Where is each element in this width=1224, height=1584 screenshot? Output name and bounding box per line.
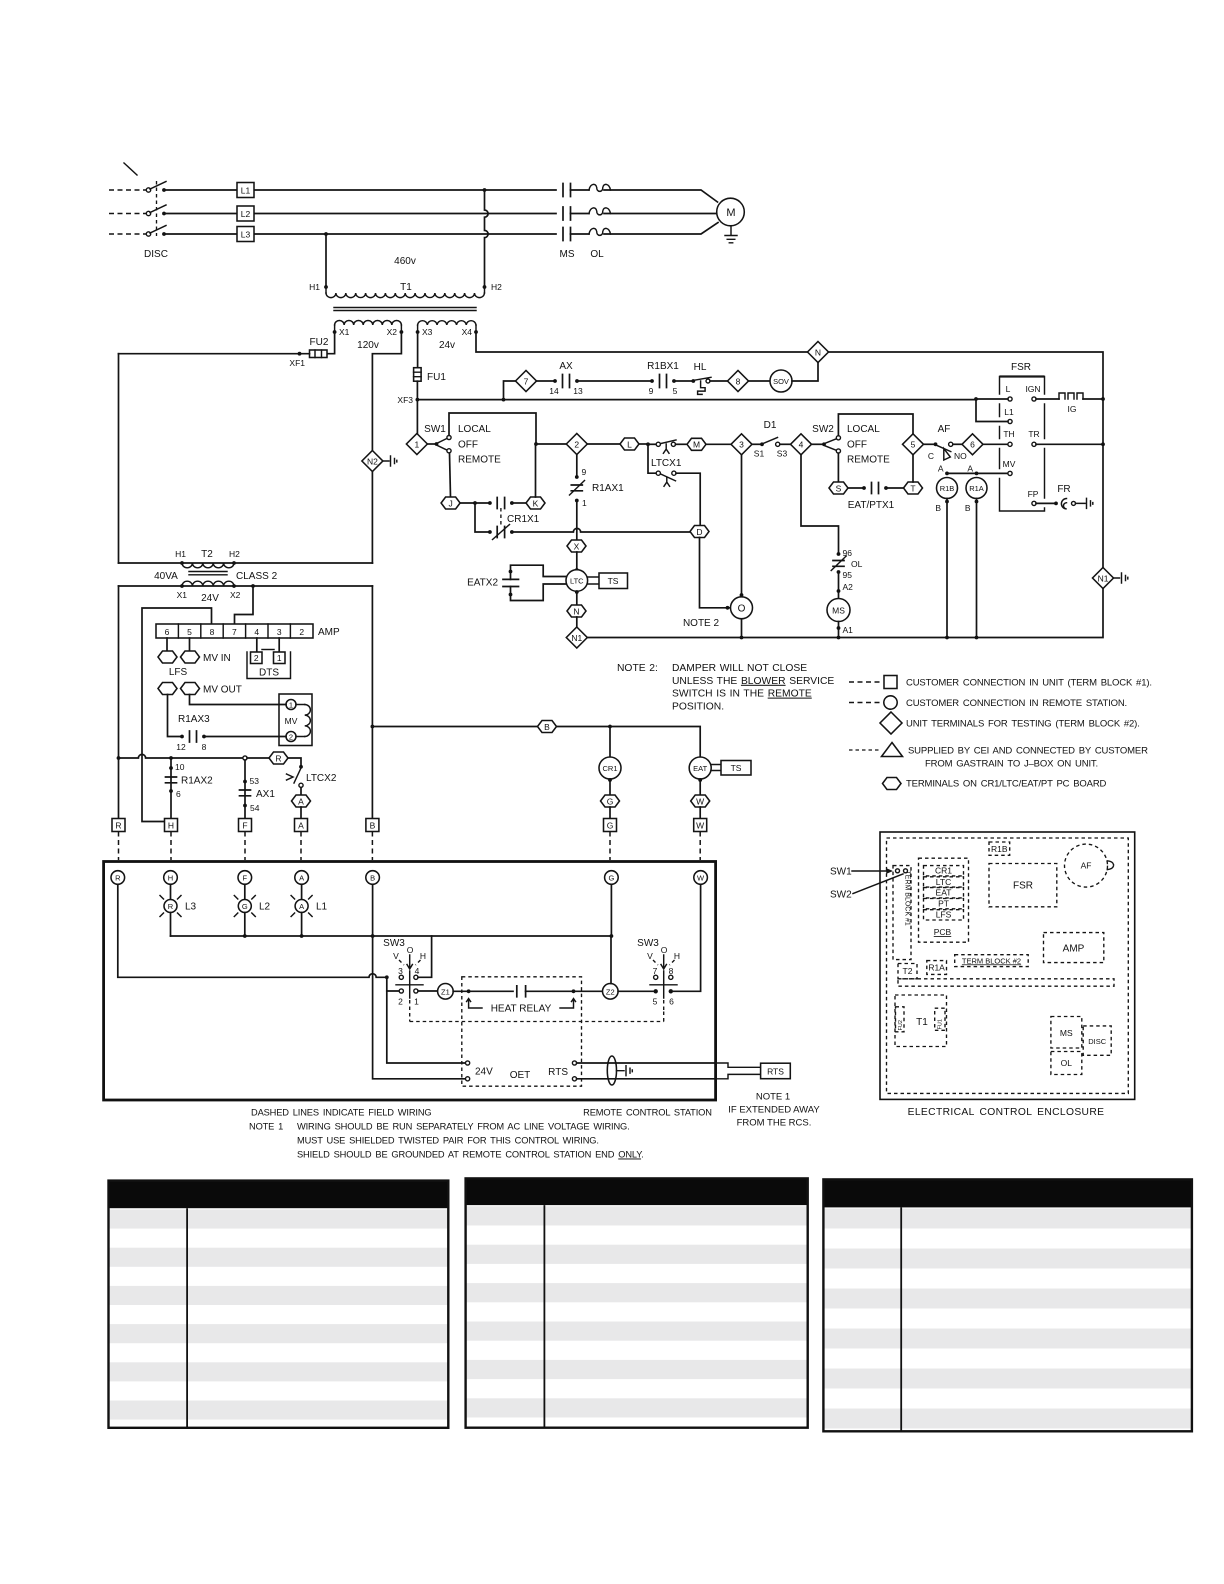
svg-text:LFS: LFS xyxy=(169,667,188,678)
svg-text:R1BX1: R1BX1 xyxy=(647,361,679,372)
svg-text:10: 10 xyxy=(175,762,185,772)
svg-text:6: 6 xyxy=(669,997,674,1007)
contact R1BX1 (NO) xyxy=(647,361,679,396)
transformer T1 xyxy=(309,256,502,351)
node L1 tap to T1 H2 xyxy=(483,188,487,192)
wire bus to LTCX2 xyxy=(288,758,301,765)
svg-text:XF3: XF3 xyxy=(397,395,413,405)
switch HL with flag xyxy=(691,362,711,394)
svg-text:H1: H1 xyxy=(309,282,320,292)
svg-text:L1: L1 xyxy=(1004,407,1014,417)
svg-text:A: A xyxy=(967,464,973,474)
svg-text:W: W xyxy=(696,796,704,806)
svg-text:SW2: SW2 xyxy=(830,890,852,901)
wire SOV to N xyxy=(792,363,818,382)
svg-text:LFS: LFS xyxy=(936,910,952,920)
svg-text:A1: A1 xyxy=(843,625,854,635)
legend pc board hexagon xyxy=(883,778,1107,790)
terminal box W xyxy=(694,819,707,832)
svg-text:RTS: RTS xyxy=(767,1066,784,1076)
svg-text:L3: L3 xyxy=(241,230,251,240)
contact EAT/PTX1 xyxy=(848,483,904,512)
svg-text:EAT: EAT xyxy=(693,764,707,773)
terminal J (pc board hexagon) xyxy=(441,497,460,509)
svg-text:SUPPLIED BY CEI AND CONNECTED: SUPPLIED BY CEI AND CONNECTED BY CUSTOME… xyxy=(908,746,1148,757)
svg-text:TS: TS xyxy=(608,576,619,586)
svg-text:LTC: LTC xyxy=(936,877,951,887)
svg-text:TERM BLOCK #2: TERM BLOCK #2 xyxy=(962,956,1021,965)
svg-text:7: 7 xyxy=(524,377,529,387)
svg-text:NOTE 1: NOTE 1 xyxy=(756,1092,790,1103)
svg-text:REMOTE: REMOTE xyxy=(847,455,890,466)
svg-text:5: 5 xyxy=(911,440,916,450)
legend customer connection in remote station xyxy=(849,696,1127,709)
svg-text:R: R xyxy=(115,874,121,883)
transformer T2 box xyxy=(898,964,917,979)
wire X2 to neutral rail xyxy=(372,332,401,563)
terminal 3 (unit test diamond) xyxy=(731,434,752,455)
relay CR1 xyxy=(609,727,611,758)
svg-text:1: 1 xyxy=(289,701,293,710)
svg-text:X1: X1 xyxy=(177,590,188,600)
svg-text:7: 7 xyxy=(232,627,237,637)
svg-text:MS: MS xyxy=(1060,1028,1073,1038)
svg-text:AMP: AMP xyxy=(318,627,340,638)
node XF3 bus at L xyxy=(974,397,978,401)
terminal 7 (unit test diamond) xyxy=(516,371,537,392)
wire 2 down to R1AX1 xyxy=(576,455,578,478)
svg-text:L2: L2 xyxy=(241,209,251,219)
svg-text:TERMINALS ON CR1/LTC/EAT/PT PC: TERMINALS ON CR1/LTC/EAT/PT PC BOARD xyxy=(906,779,1107,790)
svg-text:9: 9 xyxy=(649,386,654,396)
terminal R hexagon on bus xyxy=(269,752,288,764)
svg-text:CR1: CR1 xyxy=(935,866,952,876)
wire contact 4 up to common bus xyxy=(418,936,432,977)
wire 6 to FSR TH xyxy=(983,443,1007,445)
timer LTC xyxy=(566,570,588,592)
svg-text:OFF: OFF xyxy=(458,440,478,451)
wire contact 1 to Z1 xyxy=(418,990,438,992)
wire CR1X1 to D with hop xyxy=(512,528,690,532)
wire AMP 8 to H xyxy=(142,608,212,822)
relay EAT xyxy=(689,757,711,779)
disconnect switch DISC xyxy=(109,163,168,260)
relay R1A xyxy=(965,464,987,638)
svg-text:OL: OL xyxy=(1061,1058,1073,1068)
svg-text:AF: AF xyxy=(1081,861,1092,871)
contact AX (NO) xyxy=(549,361,583,396)
terminal box F xyxy=(239,819,252,832)
svg-text:D1: D1 xyxy=(764,420,777,431)
svg-text:B: B xyxy=(544,722,550,732)
terminal N1 right (unit test diamond) xyxy=(1093,568,1114,589)
svg-text:6: 6 xyxy=(165,627,170,637)
svg-text:40VA: 40VA xyxy=(154,571,178,582)
relay R1A box xyxy=(927,961,947,975)
svg-text:L3: L3 xyxy=(185,902,197,913)
transformer T2 xyxy=(119,549,373,604)
note 2 text block xyxy=(617,663,834,712)
node B rail tap xyxy=(371,725,375,729)
disconnect DISC box xyxy=(1083,1026,1111,1055)
svg-text:EATX2: EATX2 xyxy=(467,578,498,589)
svg-text:O: O xyxy=(661,945,668,955)
terminal box L1 xyxy=(237,183,254,198)
wiring duct bar xyxy=(898,979,1114,986)
svg-text:X1: X1 xyxy=(339,327,350,337)
svg-text:H1: H1 xyxy=(175,549,186,559)
wire T up to terminal 5 xyxy=(912,455,914,482)
contact R1AX3 xyxy=(176,714,286,752)
svg-text:T2: T2 xyxy=(201,549,213,560)
svg-text:CR1: CR1 xyxy=(602,764,617,773)
wire N1 rail bottom xyxy=(587,589,1103,638)
terminal box L3 xyxy=(237,227,254,242)
svg-text:3: 3 xyxy=(398,966,403,976)
terminal 4 (unit test diamond) xyxy=(791,434,812,455)
terminal X (pc board hexagon) xyxy=(567,540,586,552)
wire X1 to FU2 xyxy=(327,332,335,354)
svg-text:T2: T2 xyxy=(903,966,913,976)
svg-text:FROM GASTRAIN TO J–BOX ON UNIT: FROM GASTRAIN TO J–BOX ON UNIT. xyxy=(925,759,1098,770)
svg-text:5: 5 xyxy=(187,627,192,637)
svg-text:LTCX1: LTCX1 xyxy=(651,458,682,469)
shield twisted pair xyxy=(607,1056,616,1085)
fuse FU1 xyxy=(414,368,447,383)
svg-text:H: H xyxy=(674,951,680,961)
FSR module box xyxy=(1000,362,1045,511)
wire L3 tap down to H1 xyxy=(325,234,327,287)
wire 2 to L hexagon xyxy=(587,443,620,445)
terminal circle G xyxy=(605,871,619,885)
wire G rail to Z2 xyxy=(610,884,612,983)
terminal 2 (unit test diamond) xyxy=(566,434,587,455)
overload OL box xyxy=(1051,1052,1082,1075)
switch LTCX2 xyxy=(287,765,337,795)
svg-text:SHIELD SHOULD BE GROUNDED AT R: SHIELD SHOULD BE GROUNDED AT REMOTE CONT… xyxy=(297,1150,644,1160)
svg-text:CR1X1: CR1X1 xyxy=(507,514,540,525)
relay R1B xyxy=(935,464,957,638)
svg-text:NOTE 2: NOTE 2 xyxy=(683,618,720,629)
wire SW1 remote down to J xyxy=(450,453,451,497)
terminal box L2 xyxy=(237,206,254,221)
relay Z2 xyxy=(603,984,619,1000)
terminal box R xyxy=(112,819,125,832)
table 2 xyxy=(466,1178,808,1427)
svg-text:5: 5 xyxy=(673,386,678,396)
svg-text:PCB: PCB xyxy=(934,927,952,937)
svg-text:AX1: AX1 xyxy=(256,789,275,800)
switch SW1 selector xyxy=(424,424,501,466)
wire SW2 local up over to terminal 5 xyxy=(838,414,913,436)
motor M xyxy=(717,198,745,226)
wire contact 6 to W rail xyxy=(673,884,701,991)
svg-text:B: B xyxy=(965,503,971,513)
svg-text:SW1: SW1 xyxy=(424,424,446,435)
wire L1 tap down to H2 with hops over L2 L3 xyxy=(485,190,489,287)
terminal circle R xyxy=(111,871,125,885)
svg-text:3: 3 xyxy=(277,627,282,637)
terminal D (pc board hexagon) xyxy=(690,526,709,538)
svg-text:S3: S3 xyxy=(777,449,788,459)
svg-text:L: L xyxy=(1006,384,1011,394)
wire XF3 node down to terminal 1 xyxy=(416,400,418,434)
wire XF3 bus to FSR xyxy=(417,399,976,401)
svg-text:4: 4 xyxy=(799,440,804,450)
svg-text:Z2: Z2 xyxy=(606,987,615,996)
wire L1 jumper xyxy=(976,399,1008,422)
wire AMP 4 to DTS 2 xyxy=(256,638,258,652)
svg-text:C: C xyxy=(928,451,934,461)
svg-text:R1AX2: R1AX2 xyxy=(181,776,213,787)
svg-text:WIRING SHOULD BE RUN SEPARATEL: WIRING SHOULD BE RUN SEPARATELY FROM AC … xyxy=(297,1122,630,1132)
wire R to SW3 with hop over B xyxy=(118,884,387,977)
terminal A hexagon xyxy=(292,795,311,807)
sensor TS at EAT xyxy=(711,765,721,771)
node XF3 tap for terminal 7 xyxy=(502,398,506,402)
svg-text:DISC: DISC xyxy=(144,249,168,260)
svg-text:HEAT RELAY: HEAT RELAY xyxy=(491,1004,552,1015)
wire AMP 5 to hexagon xyxy=(189,638,191,651)
svg-text:CUSTOMER CONNECTION IN UNIT (T: CUSTOMER CONNECTION IN UNIT (TERM BLOCK … xyxy=(906,678,1152,689)
node XF1 xyxy=(119,353,310,355)
svg-text:REMOTE: REMOTE xyxy=(458,455,501,466)
svg-text:SWITCH IS IN THE REMOTE: SWITCH IS IN THE REMOTE xyxy=(672,689,812,700)
terminal W hexagon xyxy=(691,795,710,807)
terminal 6 (unit test diamond) xyxy=(962,434,983,455)
svg-text:24v: 24v xyxy=(439,340,455,351)
svg-text:SW3: SW3 xyxy=(637,938,659,949)
svg-text:R1AX3: R1AX3 xyxy=(178,714,210,725)
svg-text:X2: X2 xyxy=(387,327,398,337)
terminal box RTS remote xyxy=(761,1063,791,1079)
wire SW1 local up and over to node K xyxy=(449,413,536,444)
wire TR to rail xyxy=(1036,443,1103,445)
wire tap up to terminal 7 xyxy=(504,381,516,400)
wire R1BX1 to HL xyxy=(674,380,693,382)
svg-text:RTS: RTS xyxy=(548,1067,568,1078)
svg-text:R: R xyxy=(275,753,281,763)
svg-text:8: 8 xyxy=(210,627,215,637)
svg-text:MV IN: MV IN xyxy=(203,653,231,664)
wire MS to rail xyxy=(838,622,840,638)
svg-text:V: V xyxy=(647,951,653,961)
legend unit terminals for testing xyxy=(880,712,1140,734)
wire HL to terminal 8 xyxy=(710,380,728,382)
contact CR1X1 NC xyxy=(475,503,514,540)
svg-text:M: M xyxy=(693,440,700,450)
svg-text:OL: OL xyxy=(590,249,604,260)
svg-text:TERM BLOCK #1: TERM BLOCK #1 xyxy=(904,871,911,926)
svg-text:EAT: EAT xyxy=(936,888,952,898)
svg-text:N2: N2 xyxy=(367,456,378,466)
svg-text:460v: 460v xyxy=(394,256,416,267)
node K junction xyxy=(534,442,538,446)
svg-text:T1: T1 xyxy=(916,1017,928,1028)
wire R1AX1 down to X xyxy=(576,501,578,541)
svg-text:R1B: R1B xyxy=(991,844,1008,854)
contactor MS poles xyxy=(560,184,575,261)
svg-text:A: A xyxy=(299,874,304,883)
label heat relay with arrows xyxy=(467,999,576,1015)
svg-text:B: B xyxy=(935,503,941,513)
wire node K to terminal 2 xyxy=(536,443,566,445)
svg-text:MS: MS xyxy=(832,605,845,615)
svg-text:H: H xyxy=(168,820,174,830)
svg-text:MV OUT: MV OUT xyxy=(203,685,242,696)
wires OL to motor xyxy=(604,190,718,234)
svg-text:T: T xyxy=(910,483,915,493)
svg-text:G: G xyxy=(608,874,614,883)
svg-text:DISC: DISC xyxy=(1088,1037,1107,1046)
contact R1AX1 NC xyxy=(570,467,625,508)
relay Z1 xyxy=(438,984,454,1000)
svg-text:J: J xyxy=(448,498,452,508)
svg-text:SW2: SW2 xyxy=(812,424,834,435)
ignition coil IG xyxy=(1036,393,1105,414)
svg-text:TS: TS xyxy=(731,763,742,773)
terminal M (pc board hexagon) xyxy=(687,438,706,450)
svg-text:K: K xyxy=(533,498,539,508)
svg-text:1: 1 xyxy=(582,498,587,508)
wire AMP 6 to hexagon xyxy=(166,638,168,651)
svg-text:G: G xyxy=(242,902,248,911)
contactor coil MS xyxy=(827,599,850,622)
wire SW2 remote down to S xyxy=(837,453,839,482)
svg-text:O: O xyxy=(407,945,414,955)
node X2 tap to AMP 7 xyxy=(251,584,255,588)
svg-text:IF EXTENDED AWAY: IF EXTENDED AWAY xyxy=(728,1105,820,1116)
svg-text:OL: OL xyxy=(851,559,863,569)
wire phase L3 xyxy=(164,233,556,235)
terminal N2 xyxy=(362,451,397,472)
wire 24V hot rail to R xyxy=(118,586,120,819)
svg-text:IG: IG xyxy=(1068,404,1077,414)
svg-text:A: A xyxy=(299,902,304,911)
wire X3 to FU1 xyxy=(417,332,419,368)
svg-text:R1A: R1A xyxy=(928,963,945,973)
node XF3 xyxy=(416,381,418,399)
svg-text:R: R xyxy=(168,902,174,911)
svg-text:L: L xyxy=(627,439,632,449)
svg-text:2: 2 xyxy=(289,733,293,742)
wire M to 3 xyxy=(706,443,731,445)
svg-text:Z1: Z1 xyxy=(441,987,450,996)
table 1 xyxy=(109,1181,449,1428)
wire X4 to 24v bus xyxy=(476,332,808,352)
svg-text:SW1: SW1 xyxy=(830,867,852,878)
dashed field wires below terminal boxes xyxy=(119,832,701,861)
svg-text:NOTE 2:: NOTE 2: xyxy=(617,663,658,674)
svg-text:R: R xyxy=(115,820,121,830)
svg-text:FU1: FU1 xyxy=(938,1019,944,1029)
sensor TS at LTC xyxy=(588,577,599,584)
terminal K (pc board hexagon) xyxy=(526,497,545,509)
switch LTCX1 upper xyxy=(639,440,686,469)
wire LTC to N xyxy=(576,592,578,605)
electrical control enclosure outline xyxy=(880,832,1135,1099)
svg-text:T1: T1 xyxy=(400,282,412,293)
contact heat relay xyxy=(517,986,526,997)
svg-text:F: F xyxy=(242,820,247,830)
transformer T1 box xyxy=(895,995,947,1047)
switch SW3 left pole xyxy=(383,938,426,1022)
node R1B B rail xyxy=(945,636,949,640)
terminal 5 (unit test diamond) xyxy=(903,434,924,455)
svg-text:R1B: R1B xyxy=(940,484,955,493)
svg-text:53: 53 xyxy=(250,776,260,786)
switch LTCX1 lower xyxy=(648,444,700,524)
wire 24v bus N to right rail xyxy=(829,352,1104,567)
svg-text:95: 95 xyxy=(843,570,853,580)
terminal N1 left (unit test diamond) xyxy=(566,627,587,648)
damper motor O xyxy=(731,597,753,619)
terminal circle B xyxy=(366,871,380,885)
switch SW3 right pole xyxy=(637,938,680,1010)
terminal N (pc board hexagon) xyxy=(567,605,586,617)
mechanical link CR1X1 xyxy=(500,508,502,526)
svg-text:LTCX2: LTCX2 xyxy=(306,773,337,784)
svg-text:L1: L1 xyxy=(316,902,328,913)
svg-text:EAT/PTX1: EAT/PTX1 xyxy=(848,500,895,511)
switch AF xyxy=(924,424,968,461)
svg-text:UNLESS THE BLOWER SERVICE: UNLESS THE BLOWER SERVICE xyxy=(672,676,834,687)
wire MV OUT left to R1AX3 xyxy=(168,695,183,737)
solenoid valve SOV xyxy=(770,370,792,392)
svg-text:W: W xyxy=(696,820,704,830)
svg-text:24V: 24V xyxy=(201,593,219,604)
remote control station box xyxy=(104,862,716,1101)
svg-text:5: 5 xyxy=(653,997,658,1007)
svg-text:POSITION.: POSITION. xyxy=(672,701,724,712)
module FSR box xyxy=(989,864,1057,907)
svg-text:AF: AF xyxy=(938,424,951,435)
svg-text:8: 8 xyxy=(736,377,741,387)
svg-text:REMOTE CONTROL STATION: REMOTE CONTROL STATION xyxy=(583,1108,712,1118)
svg-text:V: V xyxy=(393,951,399,961)
24V bus with hop over H wire xyxy=(119,754,246,758)
svg-text:X: X xyxy=(574,541,580,551)
term block 2 xyxy=(955,955,1028,967)
svg-text:L1: L1 xyxy=(241,186,251,196)
svg-text:AX: AX xyxy=(559,361,573,372)
lamp L2 xyxy=(234,884,270,936)
svg-text:4: 4 xyxy=(415,966,420,976)
wire K up to node xyxy=(535,444,537,497)
svg-text:B: B xyxy=(370,874,375,883)
svg-text:4: 4 xyxy=(254,627,259,637)
svg-text:FSR: FSR xyxy=(1011,362,1031,373)
svg-text:X3: X3 xyxy=(422,327,433,337)
node R1A B rail xyxy=(975,636,979,640)
wire O to rail xyxy=(741,619,743,638)
svg-text:FU2: FU2 xyxy=(898,1020,904,1030)
svg-text:6: 6 xyxy=(970,440,975,450)
terminal MV IN hexagons xyxy=(158,651,177,663)
terminal circle A xyxy=(295,871,309,885)
svg-text:H2: H2 xyxy=(229,549,240,559)
svg-text:FU2: FU2 xyxy=(310,337,329,348)
terminal circle F xyxy=(238,871,252,885)
svg-text:S1: S1 xyxy=(754,449,765,459)
contact OL NC xyxy=(831,548,862,580)
wires RTS to shield xyxy=(577,1063,715,1079)
svg-text:LTC: LTC xyxy=(570,577,584,586)
terminal 24V xyxy=(466,1061,470,1065)
wire X to LTC xyxy=(576,552,578,570)
capacitor EATX2 xyxy=(467,565,566,600)
terminal G hexagon xyxy=(601,795,620,807)
